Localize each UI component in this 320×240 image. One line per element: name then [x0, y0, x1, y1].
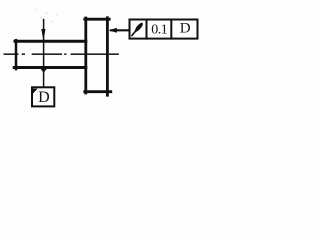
datum triangle (filled, on shaft bottom line): [39, 67, 48, 73]
svg-text:0.1: 0.1: [151, 23, 168, 38]
svg-text:D: D: [180, 21, 191, 37]
frame divider 1: [146, 19, 148, 40]
frame divider 2: [170, 19, 172, 40]
leader arrowhead (points left at flange right edge): [109, 28, 117, 33]
datum box: [32, 87, 54, 106]
leader wire (to feature control frame): [110, 29, 130, 31]
shaft outline (small cylinder): [14, 40, 86, 69]
dimension arrowhead (points down onto shaft top line): [41, 29, 45, 41]
flange outline (large cylinder): [85, 18, 111, 95]
corner blob (ink mark inside datum box): [32, 89, 37, 95]
noise specks: [35, 9, 58, 23]
circular runout symbol (slanted arrow): [131, 22, 144, 37]
dimension line (vertical through shaft at datum): [43, 19, 45, 88]
centerline (shaft axis, dash-dot): [4, 53, 119, 55]
svg-text:D: D: [38, 89, 50, 106]
feature control frame: [130, 20, 198, 39]
